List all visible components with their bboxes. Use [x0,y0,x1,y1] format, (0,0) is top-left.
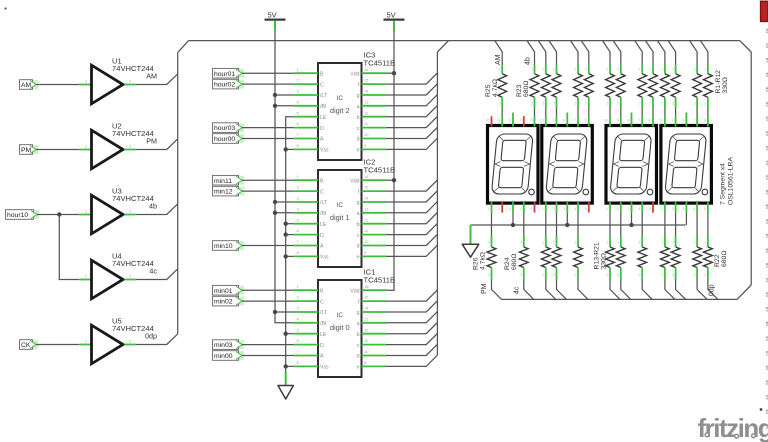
svg-text:CK: CK [21,342,31,349]
wire 5V rail A to IC3 pin3 [275,94,294,96]
net label CK (input) [20,340,39,350]
svg-text:6: 6 [585,119,587,123]
net label min00 (input) [213,351,245,361]
svg-text:10: 10 [364,239,369,244]
svg-text:74VHCT244: 74VHCT244 [112,259,154,268]
svg-text:74VHCT244: 74VHCT244 [112,194,154,203]
wire IC1 g output to mid bus [386,301,437,312]
svg-text:9: 9 [553,119,555,123]
svg-text:2: 2 [661,102,663,106]
svg-text:4: 4 [520,207,522,211]
7-segment display DIS3 [604,113,657,213]
svg-text:5: 5 [649,207,651,211]
label net AM (top) [495,54,502,65]
svg-text:2: 2 [704,273,706,277]
junction 5V rail C IC3 Vdd [392,71,396,75]
svg-text:5V: 5V [268,11,277,20]
svg-text:680Ω: 680Ω [511,254,518,270]
wire IC3 a output to mid bus [386,95,437,106]
svg-text:15: 15 [364,295,369,300]
resistor R23 (top column at x=534) [527,41,539,117]
svg-text:min01: min01 [214,288,233,295]
resistor R14 (bottom column at x=557) [552,213,566,300]
svg-text:/BI: /BI [320,104,326,110]
wire IC1 a output to mid bus [386,312,437,323]
wire top-right chamfer [740,41,752,52]
junction ground bus DIS2 [565,223,569,227]
wire min10 to IC2 [242,245,294,247]
svg-text:LE: LE [320,115,327,121]
svg-text:OSL10561-LRA: OSL10561-LRA [728,157,735,205]
svg-text:2: 2 [694,102,696,106]
wire 5V rail A to IC2 pin4 [275,212,294,214]
label R1-R12 330 [715,70,729,94]
net label min11 (input) [213,175,245,185]
wire CK label to U5 [36,344,79,346]
svg-text:1: 1 [639,241,641,245]
svg-text:2: 2 [617,102,619,106]
svg-text:2: 2 [607,273,609,277]
svg-text:D: D [320,233,324,239]
svg-text:1: 1 [499,68,501,72]
svg-text:7: 7 [638,119,640,123]
junction rail B IC3 pin8 [284,147,288,151]
junction 5V rail C IC2 Vdd [392,178,396,182]
wire ground bus stub green [470,225,472,244]
net label hour10 (input) [6,210,40,220]
svg-text:e: e [357,148,360,154]
junction rail B IC2 pin5 [284,222,288,226]
svg-text:D: D [320,126,324,132]
svg-text:7: 7 [520,119,522,123]
net label 4c on U4 output [149,267,157,276]
net label min01 (input) [213,285,245,295]
wire hour03 to IC3 [242,127,294,129]
svg-text:6: 6 [649,119,651,123]
svg-text:1: 1 [488,241,490,245]
svg-text:4b: 4b [149,202,157,211]
svg-text:Vss: Vss [320,365,329,371]
svg-text:2: 2 [672,207,674,211]
resistor R4 (top column at x=589) [581,41,593,117]
svg-text:R13-R21: R13-R21 [594,242,601,269]
svg-text:1: 1 [704,241,706,245]
svg-text:0dp: 0dp [145,332,157,341]
svg-text:2: 2 [672,102,674,106]
wire 5V rail C vertical [386,31,394,290]
wire U3 output to left bus [136,204,178,215]
svg-text:5: 5 [585,207,587,211]
svg-text:d: d [357,137,360,143]
junction 5V rail A IC3 pin4 [273,104,277,108]
svg-text:1: 1 [531,68,533,72]
wire IC1 c output to mid bus [386,333,437,344]
wire IC1 e output to mid bus [386,355,437,366]
op-amp buffer U5 74VHCT244 [79,317,153,364]
resistor R7 (top column at x=642) [635,41,647,117]
junction rail B IC2 pin8 [284,254,288,258]
wire rail B to IC1 pin5 [286,333,294,335]
svg-text:LE: LE [320,222,327,228]
svg-text:14: 14 [364,196,369,201]
svg-text:1: 1 [553,241,555,245]
wire hour01 to IC3 [242,72,294,74]
wire hour10 branch down to U4 [59,215,79,280]
wire IC2 a output to mid bus [386,202,437,213]
wire IC1 b output to mid bus [386,323,437,334]
wire hour02 to IC3 [242,83,294,85]
svg-text:2: 2 [488,273,490,277]
resistor R8 (top column at x=653) [646,41,658,117]
junction 5V rail A IC1 /LT [273,310,277,314]
svg-text:B: B [320,288,324,294]
svg-text:1: 1 [672,241,674,245]
svg-text:1: 1 [488,207,490,211]
svg-text:1: 1 [542,207,544,211]
op-amp buffer U1 74VHCT244 [79,57,153,104]
svg-text:2: 2 [704,102,706,106]
wire IC2 f output to mid bus [386,180,437,191]
svg-text:1: 1 [606,207,608,211]
svg-text:7 Segment x4: 7 Segment x4 [720,163,727,205]
resistor R5 (top column at x=610) [603,41,615,117]
svg-text:AM: AM [21,82,32,89]
svg-text:d: d [357,244,360,250]
label R13-R21 330 [594,242,608,269]
wire 5V rail C to IC3 Vdd [386,72,394,74]
svg-text:b: b [357,115,360,121]
wire min02 to IC1 [242,300,294,302]
svg-text:B: B [320,71,324,77]
resistor R21 (bottom column at x=697) [693,213,707,300]
junction 5V rail A IC3 pin3 [273,93,277,97]
svg-text:13: 13 [364,206,369,211]
wire 5V rail A vertical [275,31,294,323]
svg-text:hour10: hour10 [7,212,28,219]
svg-text:16: 16 [364,174,369,179]
svg-text:hour00: hour00 [214,136,235,143]
junction ground bus DIS3 [629,223,633,227]
svg-text:6: 6 [531,119,533,123]
svg-text:8: 8 [682,119,684,123]
partial component at right edge (red header) [761,1,768,21]
svg-text:1: 1 [661,68,663,72]
svg-text:R25: R25 [485,84,492,97]
wire IC2 c output to mid bus [386,223,437,234]
svg-text:13: 13 [364,316,369,321]
resistor R19 (bottom column at x=665) [661,213,675,300]
svg-text:PM: PM [481,283,488,294]
net label 0dp on U5 output [145,332,157,341]
svg-text:10: 10 [364,349,369,354]
wire IC1 d output to mid bus [386,344,437,355]
svg-text:1: 1 [694,68,696,72]
label net PM (bottom) [481,283,488,294]
speck near logo [760,408,763,411]
svg-text:a: a [357,211,360,217]
resistor R6 (top column at x=621) [613,41,625,117]
IC chip IC1 TC4511B digit 0 [294,268,395,378]
wire DIS3 pin3 to ground bus [631,213,633,225]
svg-text:C: C [320,82,324,88]
svg-text:1: 1 [661,241,663,245]
label R23 680 [516,81,530,97]
label 7 Segment x4 OSL10561-LRA [720,157,735,205]
net label hour01 (input) [213,68,245,78]
wire hour10 label to U3 [37,214,79,216]
svg-text:5: 5 [704,207,706,211]
net label min12 (input) [213,186,245,196]
svg-text:d: d [357,354,360,360]
resistor R20 (bottom column at x=676) [671,213,685,300]
fritzing watermark [698,413,768,442]
svg-text:10: 10 [486,119,490,123]
resistor R17 (bottom column at x=621) [616,213,630,300]
wire IC3 g output to mid bus [386,84,437,95]
op-amp buffer U2 74VHCT244 [79,122,153,169]
svg-text:A: A [320,354,324,360]
wire bottom bus horizontal [502,298,738,300]
svg-text:3: 3 [563,207,565,211]
svg-text:4.7kΩ: 4.7kΩ [480,252,487,270]
svg-text:8: 8 [509,119,511,123]
svg-text:C: C [320,299,324,305]
svg-text:4b: 4b [525,57,532,65]
svg-text:A: A [320,137,324,143]
svg-text:R26: R26 [473,257,480,270]
svg-text:e: e [357,365,360,371]
wire top bus horizontal [189,40,740,42]
wire IC2 g output to mid bus [386,191,437,202]
svg-text:AM: AM [146,72,157,81]
net label min03 (input) [213,340,245,350]
wire rail B green to ground [285,372,287,386]
wire IC3 d output to mid bus [386,127,437,138]
junction hour10 node [57,212,61,216]
svg-text:Vss: Vss [320,255,329,261]
label net 0dp (bottom) [709,284,716,296]
svg-text:15: 15 [364,78,369,83]
wire DIS1 pin3 to ground bus [512,213,514,225]
svg-text:680Ω: 680Ω [721,251,728,267]
svg-text:AM: AM [495,54,502,65]
wire min11 to IC2 [242,179,294,181]
svg-text:min00: min00 [214,353,233,360]
wire AM label to U1 [36,84,79,86]
svg-text:IC: IC [337,312,344,319]
label R24 680 [504,254,518,270]
svg-text:2: 2 [617,207,619,211]
wire 5V rail A to IC2 pin3 [275,201,294,203]
junction ground bus DIS1 [511,223,515,227]
ground symbol GND2 [278,386,293,400]
net label hour03 (input) [213,123,245,133]
power +5V symbol V1 [265,11,286,32]
svg-text:1: 1 [672,68,674,72]
svg-text:2: 2 [617,273,619,277]
wire min01 to IC1 [242,289,294,291]
junction rail B IC1 pin5 [284,332,288,336]
wire left bus vertical [177,53,179,334]
svg-text:15: 15 [364,185,369,190]
wire rail B to IC2 pin5 [286,223,294,225]
resistor R9 (top column at x=665) [657,41,669,117]
svg-text:5: 5 [531,207,533,211]
net label min02 (input) [213,296,245,306]
wire DIS4 pin3 to ground bus [685,213,687,225]
wire IC2 d output to mid bus [386,234,437,245]
label R25 4.7k [485,79,499,97]
resistor R25 (top column at x=502) [495,41,507,117]
svg-text:10: 10 [364,132,369,137]
svg-text:c: c [357,233,360,239]
svg-text:4c: 4c [149,267,157,276]
svg-text:2: 2 [650,102,652,106]
svg-text:B: B [320,178,324,184]
svg-text:10: 10 [659,119,663,123]
svg-text:2: 2 [661,273,663,277]
svg-text:R22: R22 [714,254,721,267]
net label AM on U1 output [146,72,157,81]
svg-text:Vss: Vss [320,148,329,154]
wire U5 output to left bus [136,334,178,345]
wire mid bus vertical [436,52,438,355]
resistor R11 (top column at x=697) [690,41,702,117]
7-segment display DIS4 [659,113,712,213]
svg-text:e: e [357,255,360,261]
svg-text:4c: 4c [514,286,521,294]
svg-text:12: 12 [364,217,369,222]
svg-text:2: 2 [575,102,577,106]
svg-text:Vdd: Vdd [350,71,359,77]
svg-text:2: 2 [672,273,674,277]
svg-text:IC: IC [337,95,344,102]
op-amp buffer U3 74VHCT244 [79,187,153,234]
svg-text:1: 1 [607,68,609,72]
svg-text:fritzing: fritzing [698,413,768,442]
svg-text:7: 7 [574,119,576,123]
svg-text:/BI: /BI [320,321,326,327]
svg-text:16: 16 [364,67,369,72]
svg-text:5V: 5V [387,11,396,20]
svg-text:digit 1: digit 1 [330,213,350,222]
wire IC2 e output to mid bus [386,245,437,256]
wire 5V rail A to IC3 pin4 [275,105,294,107]
svg-text:6: 6 [704,119,706,123]
svg-text:C: C [320,189,324,195]
svg-text:1: 1 [617,241,619,245]
net label PM (input) [20,145,39,155]
wire hour00 to IC3 [242,138,294,140]
svg-text:digit 0: digit 0 [330,323,350,332]
svg-text:2: 2 [585,102,587,106]
svg-text:min10: min10 [214,243,233,250]
svg-text:1: 1 [553,68,555,72]
svg-text:2: 2 [639,102,641,106]
svg-text:g: g [357,310,360,316]
svg-text:hour01: hour01 [214,71,235,78]
wire IC3 e output to mid bus [386,138,437,149]
speck top-left [4,7,6,9]
svg-text:8: 8 [628,119,630,123]
svg-text:a: a [357,321,360,327]
svg-text:2: 2 [542,102,544,106]
junction rail B IC1 pin8 [284,364,288,368]
wire 5V rail A to IC1 /LT [275,311,294,313]
label R22 680 [714,251,728,267]
svg-text:4: 4 [638,207,640,211]
svg-text:10: 10 [604,119,608,123]
net label PM on U2 output [146,137,157,146]
wire rail B to IC2 pin8 [286,255,294,257]
resistor R26 (bottom column at x=492) [487,213,501,300]
svg-text:4.7kΩ: 4.7kΩ [492,79,499,97]
resistor R2 (top column at x=557) [549,41,561,117]
svg-text:Vdd: Vdd [350,288,359,294]
net label hour00 (input) [213,134,245,144]
wire IC3 b output to mid bus [386,106,437,117]
wire min00 to IC1 [242,355,294,357]
wire mid bus chamfer to top bus [437,41,448,52]
svg-text:b: b [357,332,360,338]
svg-text:PM: PM [21,147,32,154]
net label 4b on U3 output [149,202,157,211]
op-amp buffer U4 74VHCT244 [79,252,153,299]
svg-text:D: D [320,343,324,349]
svg-text:Vdd: Vdd [350,178,359,184]
svg-text:2: 2 [694,273,696,277]
wire ground bus horizontal [471,224,686,226]
svg-text:2: 2 [553,273,555,277]
resistor R16 (bottom column at x=610) [606,213,620,300]
svg-text:1: 1 [575,68,577,72]
svg-text:2: 2 [498,207,500,211]
svg-text:1: 1 [617,68,619,72]
svg-text:A: A [320,244,324,250]
svg-text:a: a [357,104,360,110]
ground symbol GND1 [462,244,479,257]
wire U2 output to left bus [136,139,178,150]
svg-text:2: 2 [639,273,641,277]
wire rail B to IC2 pin6 [286,234,294,236]
net label min10 (input) [213,241,245,251]
svg-text:3: 3 [682,207,684,211]
wire left bus chamfer to top [178,41,189,53]
svg-text:14: 14 [364,89,369,94]
partial pin labels at right edge [766,29,768,429]
svg-text:13: 13 [364,99,369,104]
svg-text:LE: LE [320,332,327,338]
svg-text:g: g [357,93,360,99]
svg-text:1: 1 [607,241,609,245]
label net 4b (top) [525,57,532,65]
7-segment display DIS1 [486,113,539,213]
svg-text:min12: min12 [214,189,233,196]
junction 5V rail A IC2 pin3 [273,200,277,204]
svg-text:3: 3 [509,207,511,211]
svg-text:1: 1 [694,241,696,245]
svg-text:9: 9 [672,119,674,123]
svg-text:1: 1 [575,241,577,245]
svg-text:330Ω: 330Ω [722,77,729,93]
resistor R1 (top column at x=546) [538,41,550,117]
svg-text:330Ω: 330Ω [601,253,608,269]
svg-text:R24: R24 [504,257,511,270]
svg-text:c: c [357,126,360,132]
resistor R18 (bottom column at x=642) [638,213,652,300]
svg-text:14: 14 [364,306,369,311]
svg-text:1: 1 [704,68,706,72]
